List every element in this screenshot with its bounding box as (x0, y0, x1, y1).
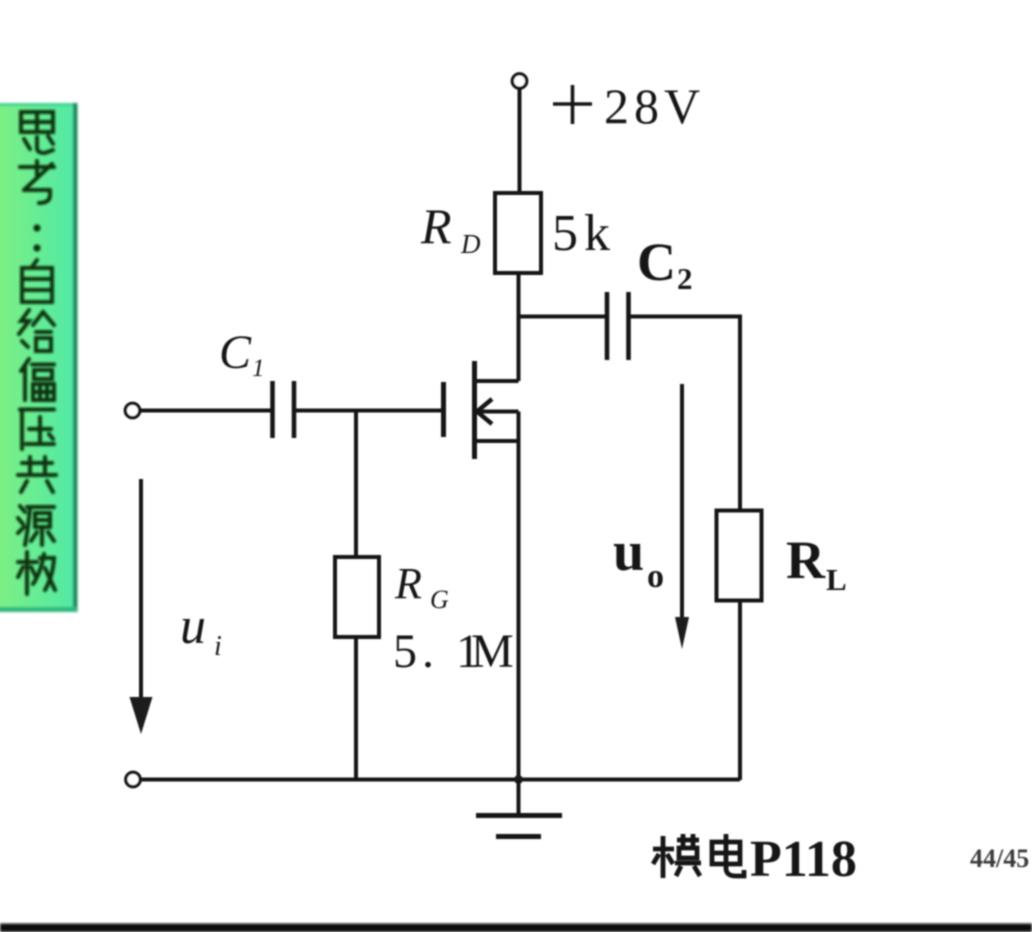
wire input to C1 (140, 409, 271, 413)
svg-text:2: 2 (677, 261, 693, 296)
svg-text:i: i (214, 631, 222, 662)
svg-text:1: 1 (252, 355, 265, 382)
svg-text:L: L (826, 562, 847, 597)
char 思 (21, 112, 53, 153)
green sidebar banner (0, 103, 78, 612)
wire drain node to C2 (519, 315, 606, 319)
input terminal bottom (126, 772, 140, 786)
wire corner down to R_L (738, 315, 742, 512)
svg-text:44/45: 44/45 (970, 844, 1029, 873)
svg-text:D: D (460, 229, 481, 259)
svg-text:C: C (219, 326, 252, 379)
char 源 (18, 506, 54, 545)
ground bar 2 (496, 834, 541, 839)
wire source down (517, 412, 521, 781)
svg-text:R: R (394, 559, 422, 608)
char 压 (20, 410, 54, 450)
wire R_G to rail (354, 637, 358, 780)
char 共 (18, 457, 56, 492)
svg-text:o: o (647, 558, 664, 595)
drain lead (475, 379, 519, 383)
substrate lead with arrow (477, 410, 519, 414)
label + of +28V plus sign (553, 102, 592, 106)
capacitor C2 (605, 292, 610, 360)
svg-text:5k: 5k (552, 205, 616, 262)
char ： (33, 224, 40, 251)
resistor R_G (335, 557, 379, 637)
resistor R_L (717, 511, 762, 601)
wire gate node down to R_G (354, 411, 358, 558)
ground bar 1 (476, 813, 562, 818)
svg-text:R: R (786, 530, 826, 590)
char 自 (22, 260, 52, 302)
arrow u_o (680, 384, 684, 626)
resistor R_D (495, 193, 541, 273)
bottom rail wire (141, 778, 741, 782)
arrow u_i (139, 479, 143, 702)
char 电 (712, 834, 744, 876)
char 模 (653, 834, 701, 878)
svg-text:u: u (180, 598, 206, 655)
input terminal top (125, 403, 139, 417)
svg-text:28V: 28V (604, 78, 705, 134)
source lead (475, 439, 519, 443)
char 极 (18, 552, 55, 594)
ground stub (517, 780, 521, 816)
char 偏 (21, 359, 54, 400)
wire C2 to corner (631, 315, 741, 319)
bottom black bar (0, 924, 1032, 932)
transistor V (depletion MOSFET) gate bar (441, 382, 446, 437)
wire supply stub (518, 89, 522, 193)
banner vertical text 思考：自给偏压共源极 (18, 112, 56, 594)
node S junction dot (514, 775, 523, 784)
svg-text:G: G (430, 585, 449, 614)
transistor channel bar (472, 361, 477, 459)
wire gate to C1 (296, 409, 441, 413)
char 考 (20, 161, 54, 203)
svg-text:P118: P118 (750, 831, 857, 888)
wire R_L to rail (738, 600, 742, 780)
char 给 (19, 310, 54, 351)
svg-text:C: C (637, 232, 676, 292)
svg-text:u: u (613, 521, 644, 583)
svg-text:R: R (420, 198, 452, 254)
wire R_D bottom to drain (517, 273, 521, 381)
terminal +28V (512, 74, 526, 88)
capacitor C1 (270, 381, 275, 438)
label 模电 (stroke glyphs) (653, 834, 744, 878)
